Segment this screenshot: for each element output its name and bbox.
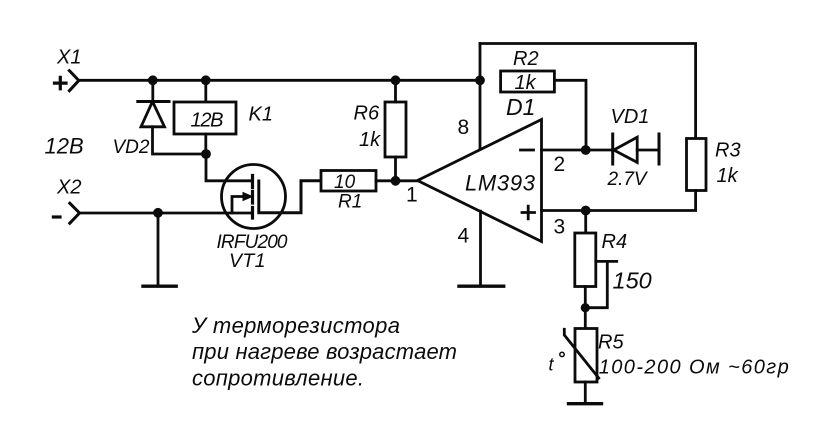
svg-text:2: 2 <box>554 153 566 176</box>
svg-text:12В: 12В <box>191 110 224 132</box>
svg-text:1: 1 <box>406 184 418 207</box>
svg-text:150: 150 <box>613 268 652 294</box>
svg-text:1k: 1k <box>515 72 537 94</box>
svg-text:LM393: LM393 <box>465 171 536 196</box>
svg-text:1k: 1k <box>359 129 381 151</box>
svg-text:12В: 12В <box>45 134 84 159</box>
svg-text:У терморезистора: У терморезистора <box>191 313 400 338</box>
svg-text:R3: R3 <box>715 140 741 162</box>
svg-text:3: 3 <box>554 216 566 239</box>
svg-text:R2: R2 <box>513 48 539 70</box>
svg-text:10: 10 <box>334 172 356 193</box>
svg-text:D1: D1 <box>506 94 535 120</box>
svg-text:сопротивление.: сопротивление. <box>192 366 364 391</box>
svg-text:VD2: VD2 <box>113 137 150 158</box>
svg-text:VD1: VD1 <box>611 106 650 128</box>
svg-text:100-200 Ом ~60гр: 100-200 Ом ~60гр <box>599 357 789 379</box>
svg-text:R5: R5 <box>598 332 624 354</box>
svg-text:R4: R4 <box>602 231 628 253</box>
svg-text:8: 8 <box>458 116 470 139</box>
svg-text:X1: X1 <box>56 47 81 69</box>
svg-text:VT1: VT1 <box>229 250 266 272</box>
svg-text:4: 4 <box>458 225 470 248</box>
svg-text:2.7V: 2.7V <box>607 169 649 190</box>
svg-text:X2: X2 <box>56 177 81 199</box>
svg-text:при нагреве возрастает: при нагреве возрастает <box>192 339 457 364</box>
svg-text:R6: R6 <box>354 103 380 125</box>
svg-text:R1: R1 <box>338 192 362 213</box>
svg-text:1k: 1k <box>717 165 739 187</box>
svg-text:K1: K1 <box>249 104 273 126</box>
